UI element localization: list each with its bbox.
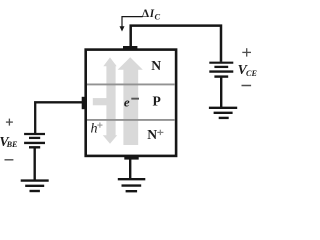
emitter wire to ground: [129, 158, 131, 179]
label - (VBE): [5, 159, 14, 161]
ground (VCE): [209, 108, 237, 118]
label - (VCE): [242, 85, 252, 87]
collector contact tab: [123, 46, 137, 50]
hole/base flow arrow (thin, two heads with branch from base): [93, 57, 117, 143]
label + (VBE): [6, 119, 13, 126]
electron flow arrow (wide, emitter to collector): [118, 57, 143, 145]
svg-text:N: N: [151, 58, 161, 73]
svg-text:P: P: [153, 94, 161, 109]
svg-text:CE: CE: [246, 69, 257, 78]
ground (VBE): [21, 181, 49, 191]
ground (emitter): [118, 179, 146, 191]
svg-text:BE: BE: [6, 140, 18, 149]
svg-text:h: h: [91, 122, 98, 137]
P/N+ junction divider line: [87, 119, 175, 121]
emitter contact tab: [124, 156, 138, 160]
battery VCE: [209, 63, 233, 77]
delta IC current arrow: [122, 17, 143, 27]
label + (VCE): [242, 48, 251, 56]
transistor body box (N/P/N+ structure): [86, 50, 176, 156]
svg-text:e: e: [124, 94, 130, 109]
battery VBE: [24, 134, 45, 147]
svg-text:N: N: [147, 127, 157, 142]
base wire to VBE battery: [35, 102, 86, 134]
wire VBE battery to ground: [34, 148, 36, 181]
N/P junction divider line: [87, 83, 175, 85]
wire VCE battery to ground: [220, 77, 222, 107]
collector wire to VCE battery: [131, 26, 221, 62]
base contact tab: [82, 97, 87, 109]
